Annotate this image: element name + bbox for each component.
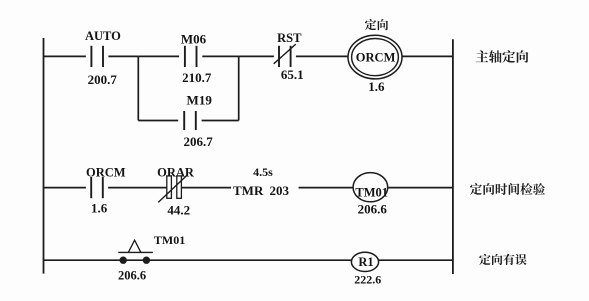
coil ORCM (double circle) bbox=[348, 35, 402, 79]
contact ORCM (NO) bbox=[91, 177, 103, 198]
wire: TMR to coil TM01 bbox=[299, 187, 353, 189]
note 主轴定向 (spindle orientation) bbox=[476, 50, 529, 63]
svg-text:TM01: TM01 bbox=[355, 185, 388, 199]
svg-text:65.1: 65.1 bbox=[281, 67, 304, 82]
svg-text:222.6: 222.6 bbox=[354, 273, 381, 287]
wire: coil R1 to right rail bbox=[379, 259, 453, 261]
note 定向有误 (orientation error) bbox=[479, 254, 526, 265]
svg-text:1.6: 1.6 bbox=[368, 79, 385, 94]
svg-text:206.7: 206.7 bbox=[183, 134, 213, 149]
svg-text:R1: R1 bbox=[358, 255, 373, 269]
wire: RST to coil ORCM bbox=[296, 55, 348, 57]
wire: M06 to branch node bbox=[202, 55, 238, 57]
label 定向 (orientation) bbox=[365, 19, 388, 30]
contact ORAR (NC, hollow bars) bbox=[158, 175, 187, 202]
contact M06 (NO) bbox=[185, 46, 197, 67]
wire: branch left to contact M19 bbox=[138, 120, 178, 122]
wire: coil TM01 to right rail bbox=[388, 187, 453, 189]
svg-text:44.2: 44.2 bbox=[167, 202, 190, 217]
contact M19 (NO) bbox=[184, 111, 196, 130]
wire: branch to contact M06 bbox=[138, 55, 179, 57]
svg-text:TM01: TM01 bbox=[154, 233, 185, 247]
coil TM01 bbox=[353, 173, 388, 202]
svg-text:TMR: TMR bbox=[233, 183, 264, 198]
svg-text:M19: M19 bbox=[187, 93, 213, 108]
contact RST (NC) bbox=[274, 44, 296, 67]
svg-text:ORCM: ORCM bbox=[356, 51, 396, 65]
svg-text:1.6: 1.6 bbox=[91, 201, 108, 216]
svg-text:206.6: 206.6 bbox=[118, 268, 146, 282]
svg-text:200.7: 200.7 bbox=[88, 72, 118, 87]
one-shot contact TM01 (transition sensing) bbox=[118, 240, 153, 264]
left power rail bbox=[43, 38, 45, 274]
timer instruction TMR 203 bbox=[233, 183, 290, 198]
svg-text:4.5s: 4.5s bbox=[253, 165, 273, 179]
wire: branch to contact RST bbox=[239, 55, 274, 57]
wire: ORAR to timer TMR bbox=[182, 187, 232, 189]
wire: left rail to contact AUTO bbox=[44, 55, 86, 57]
wire: rung 3 left section bbox=[44, 259, 352, 261]
contact AUTO (NO) bbox=[91, 46, 103, 67]
branch left vertical bbox=[137, 56, 139, 120]
svg-text:ORAR: ORAR bbox=[157, 166, 195, 180]
wire: left rail to contact ORCM bbox=[44, 187, 86, 189]
wire: AUTO to branch node bbox=[108, 55, 138, 57]
svg-text:ORCM: ORCM bbox=[86, 165, 126, 179]
wire: ORCM to contact ORAR bbox=[108, 187, 167, 189]
wire: M19 to branch right bbox=[202, 120, 239, 122]
note 定向时间检验 (orientation time check) bbox=[470, 183, 545, 195]
svg-text:203: 203 bbox=[270, 183, 290, 198]
svg-text:AUTO: AUTO bbox=[85, 29, 121, 43]
svg-text:206.6: 206.6 bbox=[358, 202, 388, 217]
svg-text:RST: RST bbox=[277, 31, 302, 45]
branch right vertical bbox=[238, 56, 240, 120]
coil R1 bbox=[351, 252, 378, 271]
right power rail bbox=[452, 39, 454, 274]
wire: coil ORCM to right rail bbox=[402, 55, 453, 57]
svg-text:M06: M06 bbox=[181, 32, 207, 47]
svg-text:210.7: 210.7 bbox=[182, 70, 212, 85]
